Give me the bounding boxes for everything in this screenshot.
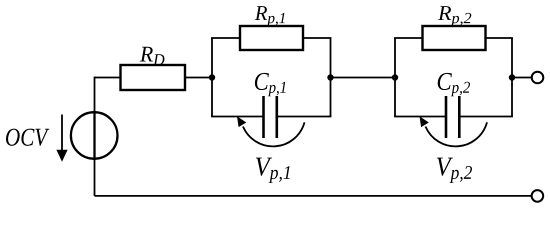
capacitor C_p,1 right plate — [275, 96, 278, 138]
wire: block1 left vertical — [211, 38, 213, 117]
label R_p,1 — [255, 6, 285, 26]
capacitor C_p,2 right plate — [458, 96, 461, 138]
label C_p,2 — [438, 73, 470, 96]
label OCV — [6, 129, 49, 146]
resistor R_p,2 — [423, 26, 486, 50]
arrow arc: V_p,1 voltage — [243, 122, 305, 146]
capacitor C_p,1 left plate — [262, 96, 265, 138]
terminal: positive open circle — [532, 72, 544, 84]
resistor R_p,1 — [240, 26, 303, 50]
wire: block1 right vertical — [330, 38, 332, 117]
wire: node B to node C — [331, 77, 396, 79]
label R_D — [140, 47, 165, 65]
wire: block1 top rail right — [303, 37, 331, 39]
wire: R_D to node A — [185, 77, 212, 79]
node A junction dot — [209, 74, 215, 80]
node C junction dot — [392, 74, 398, 80]
wire: top-left horizontal from source branch to R_D — [95, 77, 122, 79]
node B junction dot — [327, 74, 333, 80]
label R_p,2 — [438, 6, 471, 26]
wire: block2 top rail right — [486, 37, 513, 39]
wire: block2 bottom rail right — [460, 116, 513, 118]
label V_p,1 — [256, 158, 290, 183]
wire: block1 bottom rail right — [277, 116, 331, 118]
node D junction dot — [509, 74, 515, 80]
wire: left vertical branch through source — [94, 77, 96, 196]
source OCV circle — [71, 112, 118, 159]
wire: block2 left vertical — [394, 38, 396, 117]
arrow arc: V_p,2 voltage — [426, 122, 488, 146]
wire: block1 bottom rail left — [211, 116, 263, 118]
arrow: OCV current direction — [61, 115, 63, 152]
resistor R_D — [121, 65, 186, 90]
terminal: negative open circle — [532, 190, 544, 202]
wire: source circle vertical diameter — [93, 111, 95, 160]
label V_p,2 — [437, 158, 472, 183]
wire: block2 top rail left — [394, 37, 422, 39]
capacitor C_p,2 left plate — [445, 96, 448, 138]
wire: node D to positive terminal — [512, 77, 532, 79]
wire: block2 bottom rail left — [394, 116, 445, 118]
wire: bottom horizontal rail — [95, 195, 532, 197]
label C_p,1 — [255, 73, 286, 96]
wire: block2 right vertical — [511, 38, 513, 117]
wire: block1 top rail left — [211, 37, 240, 39]
